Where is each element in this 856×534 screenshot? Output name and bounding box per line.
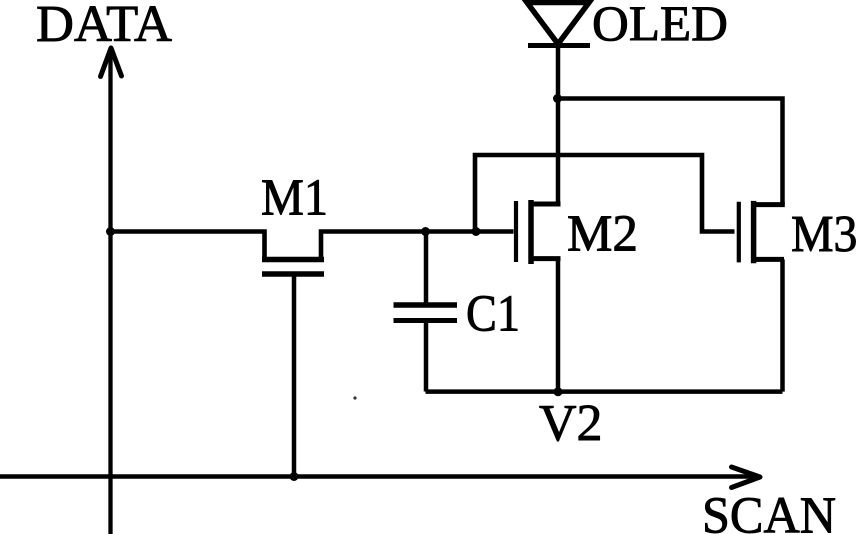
stray ink speck	[353, 396, 356, 399]
OLED diode	[527, 3, 590, 46]
node dot OLED branch junction	[553, 94, 562, 103]
wire DATA row with M1 notch	[111, 232, 514, 258]
wire OLED anode down to M2 drain	[556, 47, 561, 204]
svg-text:M3: M3	[791, 206, 856, 263]
svg-text:OLED: OLED	[592, 0, 728, 51]
node dot DATA/row junction	[106, 227, 115, 236]
svg-text:M2: M2	[567, 206, 638, 263]
wire OLED node to M3 drain	[558, 99, 783, 205]
transistor M1	[262, 260, 324, 477]
transistor M2	[516, 200, 561, 392]
node dot M1 gate / SCAN junction	[290, 472, 299, 481]
SCAN axis	[0, 467, 760, 488]
svg-text:C1: C1	[466, 286, 520, 343]
node dot V2 junction	[554, 387, 563, 396]
node dot C1 top junction	[421, 227, 430, 236]
node dot gates link junction	[472, 227, 481, 236]
transistor M3	[739, 201, 785, 392]
wire V2 bottom rail	[426, 389, 783, 394]
svg-text:SCAN: SCAN	[702, 488, 836, 534]
capacitor C1	[394, 232, 458, 392]
gates link wire (M2 gate to M3 gate)	[475, 155, 735, 232]
svg-text:V2: V2	[539, 395, 603, 452]
DATA axis	[101, 48, 122, 534]
svg-text:DATA: DATA	[36, 0, 172, 53]
svg-text:M1: M1	[261, 170, 328, 227]
